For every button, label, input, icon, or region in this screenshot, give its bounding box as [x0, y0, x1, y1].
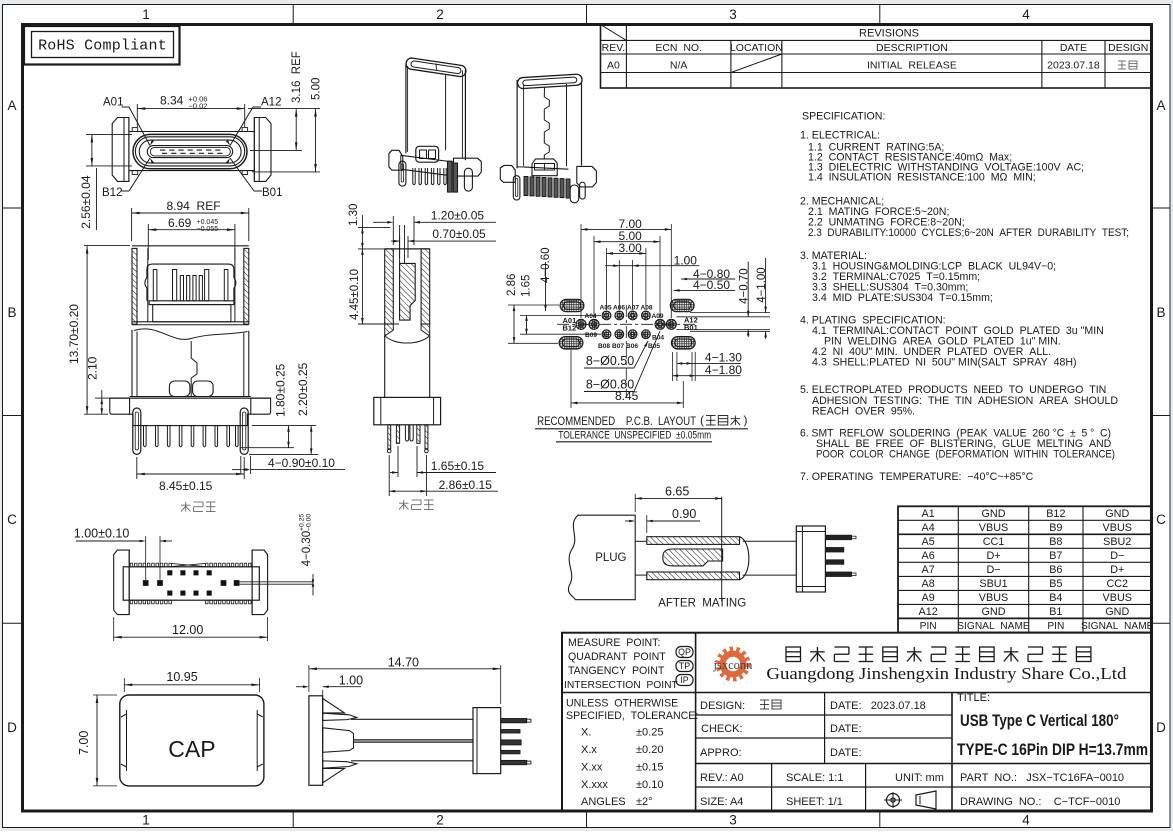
- svg-text:A08: A08: [641, 305, 653, 312]
- view8 cap side: [309, 696, 323, 786]
- top dims 7.00 5.00 3.00 1.00: [580, 224, 582, 318]
- company logo: [720, 651, 747, 678]
- svg-text:SHEET: 1/1: SHEET: 1/1: [786, 796, 843, 808]
- dims 1.80 2.20: [252, 425, 316, 427]
- view3 isometric left: [389, 57, 481, 192]
- tongue slot: [147, 146, 232, 158]
- svg-text:DATE:: DATE:: [830, 747, 862, 759]
- svg-text:D+: D+: [986, 550, 1000, 562]
- svg-text:12.00: 12.00: [172, 623, 203, 637]
- svg-text:A7: A7: [922, 564, 935, 576]
- svg-text:TYPE-C 16Pin DIP H=13.7mm: TYPE-C 16Pin DIP H=13.7mm: [957, 741, 1148, 759]
- right mounting wing: [254, 118, 271, 182]
- left wing box: [389, 150, 403, 170]
- svg-text:4−0.30: 4−0.30: [301, 531, 313, 567]
- shell walls: [385, 249, 394, 324]
- svg-text:A05: A05: [600, 305, 612, 312]
- svg-text:A8: A8: [922, 578, 935, 590]
- svg-text:2023.07.18: 2023.07.18: [1047, 60, 1100, 72]
- pin assignment table: [898, 506, 1152, 632]
- pins: [388, 425, 391, 449]
- svg-text:VBUS: VBUS: [979, 522, 1008, 534]
- right dims 4-0.80 4-0.50: [681, 278, 735, 280]
- dim 10.95: [123, 678, 125, 692]
- svg-text:±2°: ±2°: [636, 796, 653, 808]
- dim 8.45: [570, 350, 572, 408]
- svg-text:PLUG: PLUG: [595, 552, 626, 564]
- svg-text:A: A: [7, 98, 16, 113]
- svg-text:DRAWING NO.: C−TCF−0010: DRAWING NO.: C−TCF−0010: [960, 796, 1120, 808]
- svg-text:1.65±0.15: 1.65±0.15: [431, 459, 485, 473]
- pins: [513, 176, 520, 200]
- svg-text:5.00: 5.00: [311, 78, 323, 100]
- svg-text:REACH OVER 95%.: REACH OVER 95%.: [812, 406, 915, 418]
- svg-text:QUADRANT POINT: QUADRANT POINT: [568, 651, 666, 663]
- svg-text:A12: A12: [261, 97, 281, 109]
- svg-text:−0.00: −0.00: [306, 514, 313, 531]
- dim 1.00±0.10: [145, 536, 147, 580]
- svg-text:CC2: CC2: [1106, 578, 1128, 590]
- lower body: [384, 336, 386, 397]
- svg-text:D−: D−: [1110, 550, 1124, 562]
- svg-text:2.3 DURABILITY:10000 CYCLES;: 2.3 DURABILITY:10000 CYCLES;6~20N AFTER …: [808, 227, 1129, 239]
- dim 8.94 REF: [131, 208, 133, 241]
- dim 6.65: [634, 494, 636, 512]
- svg-text:PART NO.: JSX−TC16FA−0010: PART NO.: JSX−TC16FA−0010: [960, 772, 1124, 784]
- svg-text:4−1.00: 4−1.00: [756, 267, 768, 303]
- shell bottom + break arc: [385, 324, 394, 336]
- dim 12.00: [113, 617, 115, 641]
- svg-text:6.65: 6.65: [665, 485, 689, 499]
- svg-text:VBUS: VBUS: [979, 592, 1008, 604]
- svg-text:TANGENCY POINT: TANGENCY POINT: [568, 665, 665, 677]
- svg-text:PIN: PIN: [920, 621, 937, 632]
- dim 7.00: [93, 694, 117, 696]
- svg-text:Guangdong Jinshengxin Industry: Guangdong Jinshengxin Industry Share Co.…: [766, 664, 1127, 683]
- black pads: [143, 580, 148, 585]
- svg-text:3.00: 3.00: [619, 241, 643, 255]
- dim 2.10: [95, 397, 110, 399]
- dim 2.86: [388, 455, 390, 496]
- svg-text:2.86±0.15: 2.86±0.15: [439, 478, 493, 492]
- svg-text:SIZE: A4: SIZE: A4: [700, 796, 743, 808]
- svg-text:C: C: [1156, 512, 1166, 527]
- svg-text:INTERSECTION POINT: INTERSECTION POINT: [564, 680, 679, 691]
- dims 4-1.30 4-1.80: [672, 352, 674, 381]
- svg-text:B08: B08: [598, 343, 610, 350]
- shell walls hatched: [132, 248, 137, 324]
- body side walls below break: [131, 330, 133, 397]
- svg-text:SCALE: 1:1: SCALE: 1:1: [786, 772, 843, 784]
- svg-text:RECOMMENDED P.C.B. LAYOUT: RECOMMENDED P.C.B. LAYOUT: [537, 414, 696, 428]
- third angle projection symbol: [887, 794, 900, 807]
- svg-text:REVISIONS: REVISIONS: [859, 28, 919, 40]
- svg-text:+0.25: +0.25: [299, 514, 306, 531]
- svg-text:4−1.80: 4−1.80: [705, 363, 742, 377]
- base band: [401, 155, 454, 162]
- svg-text:A07: A07: [627, 305, 639, 312]
- svg-text:+0.045: +0.045: [197, 219, 219, 226]
- svg-text:CC1: CC1: [983, 536, 1005, 548]
- svg-text:1.00±0.10: 1.00±0.10: [74, 527, 130, 541]
- svg-text:VBUS: VBUS: [1103, 592, 1132, 604]
- svg-text:APPRO:: APPRO:: [700, 747, 742, 759]
- svg-text:2: 2: [436, 7, 444, 22]
- svg-text:4−0.70: 4−0.70: [738, 268, 750, 304]
- center wedge: [323, 728, 354, 753]
- tongue hatched: [663, 549, 723, 566]
- svg-text:A0: A0: [607, 60, 620, 72]
- left mounting wing: [112, 118, 129, 182]
- svg-text:4−0.90±0.10: 4−0.90±0.10: [268, 456, 335, 470]
- latch 3d: [532, 159, 557, 176]
- svg-text:B01: B01: [262, 187, 282, 199]
- svg-text:REV.: REV.: [602, 42, 626, 54]
- flange: [110, 398, 130, 414]
- svg-text:B12: B12: [563, 324, 577, 333]
- svg-text:(: (: [700, 413, 704, 427]
- svg-text:2.86: 2.86: [506, 274, 518, 296]
- dim 4-0.90: [240, 456, 242, 474]
- svg-text:1.00: 1.00: [674, 254, 698, 268]
- svg-text:GND: GND: [982, 606, 1006, 618]
- centerlines: [557, 323, 696, 325]
- svg-text:N/A: N/A: [670, 60, 688, 72]
- svg-text:±0.10: ±0.10: [636, 779, 663, 791]
- svg-text:A6: A6: [922, 550, 935, 562]
- svg-text:1: 1: [142, 7, 150, 22]
- svg-text:UNLESS OTHERWISE: UNLESS OTHERWISE: [566, 698, 678, 710]
- svg-text:CAP: CAP: [168, 736, 215, 762]
- svg-text:GND: GND: [982, 508, 1006, 520]
- receptacle shell walls: [647, 537, 740, 545]
- svg-text:6.69: 6.69: [168, 216, 192, 230]
- revisions table: [601, 25, 1152, 89]
- comb ticks top/bottom: [130, 563, 133, 567]
- cap outer silhouette lines: [351, 718, 473, 720]
- svg-text:7. OPERATING TEMPERATURE: −4: 7. OPERATING TEMPERATURE: −40°C~+85°C: [800, 471, 1034, 483]
- svg-text:SIGNAL NAME: SIGNAL NAME: [1081, 621, 1154, 632]
- dim 8.45: [136, 457, 138, 479]
- svg-text:10.95: 10.95: [166, 670, 197, 684]
- svg-text:8.94 REF: 8.94 REF: [167, 199, 221, 213]
- svg-text:±0.15: ±0.15: [636, 762, 663, 774]
- svg-text:LOCATION: LOCATION: [730, 42, 783, 54]
- svg-text:B12: B12: [1046, 508, 1065, 520]
- svg-text:GND: GND: [1105, 606, 1129, 618]
- center contact detail: [169, 381, 190, 397]
- svg-text:A09: A09: [652, 313, 664, 320]
- svg-text:1.30: 1.30: [348, 204, 360, 226]
- right wing box: [454, 158, 482, 176]
- svg-text:0.70±0.05: 0.70±0.05: [432, 227, 486, 241]
- svg-text:CHECK:: CHECK:: [701, 723, 743, 735]
- dim 2.56: [86, 133, 132, 135]
- svg-text:A5: A5: [922, 536, 935, 548]
- svg-text:ECN NO.: ECN NO.: [655, 42, 702, 54]
- svg-text:B: B: [7, 305, 16, 320]
- svg-text:4: 4: [1022, 813, 1030, 828]
- svg-text:B1: B1: [1049, 606, 1062, 618]
- right block: [473, 708, 501, 774]
- svg-text:X.: X.: [581, 727, 591, 739]
- svg-text:D: D: [7, 720, 17, 735]
- svg-text:B09: B09: [585, 332, 597, 339]
- pins: [399, 161, 406, 186]
- svg-text:−0.055: −0.055: [197, 226, 219, 233]
- svg-text:A1: A1: [922, 508, 935, 520]
- svg-text:3: 3: [729, 813, 737, 828]
- svg-text:SPECIFICATION:: SPECIFICATION:: [802, 111, 885, 123]
- left wing box: [500, 165, 515, 182]
- svg-text:B12: B12: [102, 187, 122, 199]
- svg-text:4−0.60: 4−0.60: [540, 248, 552, 284]
- dim 3.16 REF and 5.00: [248, 108, 320, 110]
- svg-text:X.x: X.x: [581, 744, 597, 756]
- svg-text:B4: B4: [1049, 592, 1062, 604]
- svg-text:IP: IP: [680, 675, 688, 685]
- base bands: [149, 301, 234, 305]
- svg-text:3.4 MID PLATE:SUS304 T=0.15: 3.4 MID PLATE:SUS304 T=0.15mm;: [812, 292, 993, 304]
- svg-text:TOLERANCE UNSPECIFIED ±0.05m: TOLERANCE UNSPECIFIED ±0.05mm: [558, 430, 711, 442]
- svg-text:B01: B01: [684, 323, 698, 332]
- svg-text:B5: B5: [1049, 578, 1062, 590]
- svg-text:USB Type C Vertical 180°: USB Type C Vertical 180°: [960, 712, 1119, 730]
- svg-text:A4: A4: [922, 522, 935, 534]
- svg-text:B6: B6: [1049, 564, 1062, 576]
- top flap triangle: [323, 699, 345, 713]
- svg-text:SBU2: SBU2: [1103, 536, 1131, 548]
- svg-text:POOR COLOR CHANGE (DEFORMAT: POOR COLOR CHANGE (DEFORMATION WITHIN TO…: [816, 449, 1115, 461]
- svg-text:B9: B9: [1049, 522, 1062, 534]
- svg-text:14.70: 14.70: [388, 655, 419, 669]
- svg-text:2.20±0.25: 2.20±0.25: [296, 362, 310, 416]
- svg-text:UNIT: mm: UNIT: mm: [895, 772, 944, 784]
- svg-text:): ): [744, 413, 748, 427]
- center spring wire: [191, 341, 197, 383]
- dim 6.69: [147, 224, 149, 260]
- latch window: [416, 146, 439, 162]
- view6 bottom view: [114, 550, 130, 615]
- svg-text:DATE: DATE: [1060, 42, 1087, 54]
- svg-text:SBU1: SBU1: [979, 578, 1007, 590]
- flange plate: [129, 131, 254, 133]
- svg-text:1.20±0.05: 1.20±0.05: [431, 209, 485, 223]
- plug block with wavy break edge: [568, 515, 635, 600]
- svg-text:REV.: A0: REV.: A0: [700, 772, 744, 784]
- svg-text:B06: B06: [626, 343, 638, 350]
- connecting lines: [635, 540, 647, 542]
- pins: [825, 535, 851, 540]
- svg-text:3.16 REF: 3.16 REF: [291, 51, 303, 103]
- svg-text:1: 1: [142, 813, 150, 828]
- dim 14.70: [308, 665, 310, 692]
- dim 8.34: [136, 104, 138, 127]
- svg-text:VBUS: VBUS: [1103, 522, 1132, 534]
- svg-text:DATE:: DATE:: [830, 723, 862, 735]
- dims 1.20 0.70: [392, 216, 394, 245]
- big oval pads: [560, 299, 584, 311]
- svg-text:4−0.50: 4−0.50: [693, 278, 730, 292]
- svg-text:8.45: 8.45: [615, 389, 639, 403]
- svg-text:TITLE:: TITLE:: [957, 692, 990, 704]
- svg-text:DESCRIPTION: DESCRIPTION: [876, 42, 948, 54]
- contact dashes: [160, 149, 221, 151]
- svg-text:A04: A04: [585, 313, 597, 320]
- bottom front edge: [517, 166, 523, 168]
- svg-text:A: A: [1156, 98, 1165, 113]
- dim 0.90: [646, 515, 648, 533]
- zone tick marks: [292, 5, 294, 25]
- svg-text:−0.02: −0.02: [189, 102, 208, 111]
- right connector body: [796, 526, 825, 592]
- svg-text:B07: B07: [612, 343, 624, 350]
- inner tongue hatched: [400, 263, 416, 320]
- dims 1.30 4.45: [358, 226, 390, 228]
- svg-text:jsxconn: jsxconn: [713, 658, 754, 672]
- leader 4-0.30: [239, 581, 313, 583]
- left dims 2.86 1.65 4-0.60: [508, 304, 559, 306]
- svg-text:7.00: 7.00: [77, 731, 91, 755]
- dim 1.00: [322, 690, 324, 696]
- dim 13.70: [84, 245, 130, 247]
- svg-text:8.45±0.15: 8.45±0.15: [159, 479, 213, 493]
- svg-text:A12: A12: [919, 606, 938, 618]
- svg-text:±0.20: ±0.20: [636, 744, 663, 756]
- shell rings: [133, 134, 247, 168]
- shell seam zigzag: [544, 87, 549, 159]
- pins: [501, 719, 527, 723]
- svg-text:8−Ø0.50: 8−Ø0.50: [586, 354, 634, 368]
- svg-text:A01: A01: [103, 97, 123, 109]
- bottom flap triangle: [323, 768, 345, 782]
- svg-text:D: D: [1156, 720, 1166, 735]
- svg-text:SIGNAL NAME: SIGNAL NAME: [957, 621, 1030, 632]
- svg-text:PIN: PIN: [1047, 621, 1064, 632]
- svg-text:8.34: 8.34: [160, 94, 184, 108]
- svg-text:3: 3: [729, 7, 737, 22]
- view3 isometric right: [500, 74, 596, 203]
- svg-text:SPECIFIED, TOLERANCE:: SPECIFIED, TOLERANCE:: [566, 710, 698, 722]
- svg-text:±0.25: ±0.25: [636, 727, 663, 739]
- svg-text:TP: TP: [679, 661, 690, 671]
- svg-text:2.10: 2.10: [86, 356, 100, 380]
- mid plate line: [132, 321, 249, 323]
- svg-text:DESIGN: DESIGN: [1108, 42, 1148, 54]
- svg-text:2: 2: [436, 813, 444, 828]
- svg-text:INITIAL RELEASE: INITIAL RELEASE: [867, 60, 957, 72]
- company name: [786, 647, 801, 662]
- svg-text:GND: GND: [1105, 508, 1129, 520]
- view7 cap front: [120, 695, 264, 786]
- svg-text:ANGLES: ANGLES: [581, 796, 626, 808]
- svg-text:1.00: 1.00: [339, 674, 363, 688]
- svg-text:C: C: [7, 512, 17, 527]
- flange: [374, 397, 441, 424]
- dip pins: [144, 426, 147, 447]
- svg-text:MEASURE POINT:: MEASURE POINT:: [568, 637, 660, 649]
- dim 1.65: [397, 446, 399, 477]
- svg-text:DATE: 2023.07.18: DATE: 2023.07.18: [830, 700, 926, 712]
- svg-text:A9: A9: [922, 592, 935, 604]
- terminal comb block: [145, 264, 236, 301]
- svg-text:AFTER MATING: AFTER MATING: [658, 598, 746, 610]
- svg-text:2.56±0.04: 2.56±0.04: [79, 175, 93, 229]
- svg-text:X.xxx: X.xxx: [581, 779, 608, 791]
- caption cross-section view: [181, 504, 191, 506]
- title block: [562, 633, 1152, 811]
- svg-text:4.3 SHELL:PLATED NI 50U" MI: 4.3 SHELL:PLATED NI 50U" MIN(SALT SPRAY …: [812, 357, 1077, 369]
- svg-text:X.xx: X.xx: [581, 762, 603, 774]
- svg-text:B7: B7: [1049, 550, 1062, 562]
- latch tabs: [132, 128, 138, 132]
- RoHS Compliant box: [24, 26, 180, 65]
- right wing box: [577, 166, 597, 187]
- svg-text:DESIGN:: DESIGN:: [700, 700, 745, 712]
- top and bottom row pads: [602, 311, 611, 320]
- svg-text:QP: QP: [678, 647, 691, 657]
- right rotated dims 4-0.70 4-1.00: [677, 316, 771, 318]
- svg-text:0.90: 0.90: [672, 507, 696, 521]
- svg-text:B: B: [1156, 305, 1165, 320]
- svg-text:D+: D+: [1110, 564, 1124, 576]
- svg-text:1.65: 1.65: [521, 275, 533, 297]
- through-hole pegs: [133, 408, 141, 454]
- mid row pads: [576, 319, 586, 329]
- svg-text:4: 4: [1022, 7, 1030, 22]
- svg-text:1.80±0.25: 1.80±0.25: [274, 363, 288, 417]
- svg-text:RoHS Compliant: RoHS Compliant: [38, 38, 167, 55]
- svg-text:D−: D−: [986, 564, 1000, 576]
- svg-text:4.45±0.10: 4.45±0.10: [349, 269, 361, 320]
- wavy break line: [134, 329, 248, 340]
- film strip: [354, 740, 474, 743]
- svg-text:1.4 INSULATION RESISTANCE:10: 1.4 INSULATION RESISTANCE:100 MΩ MIN;: [808, 172, 1036, 184]
- svg-text:13.70±0.20: 13.70±0.20: [67, 304, 81, 364]
- svg-text:B8: B8: [1049, 536, 1062, 548]
- svg-text:1. ELECTRICAL:: 1. ELECTRICAL:: [800, 130, 880, 142]
